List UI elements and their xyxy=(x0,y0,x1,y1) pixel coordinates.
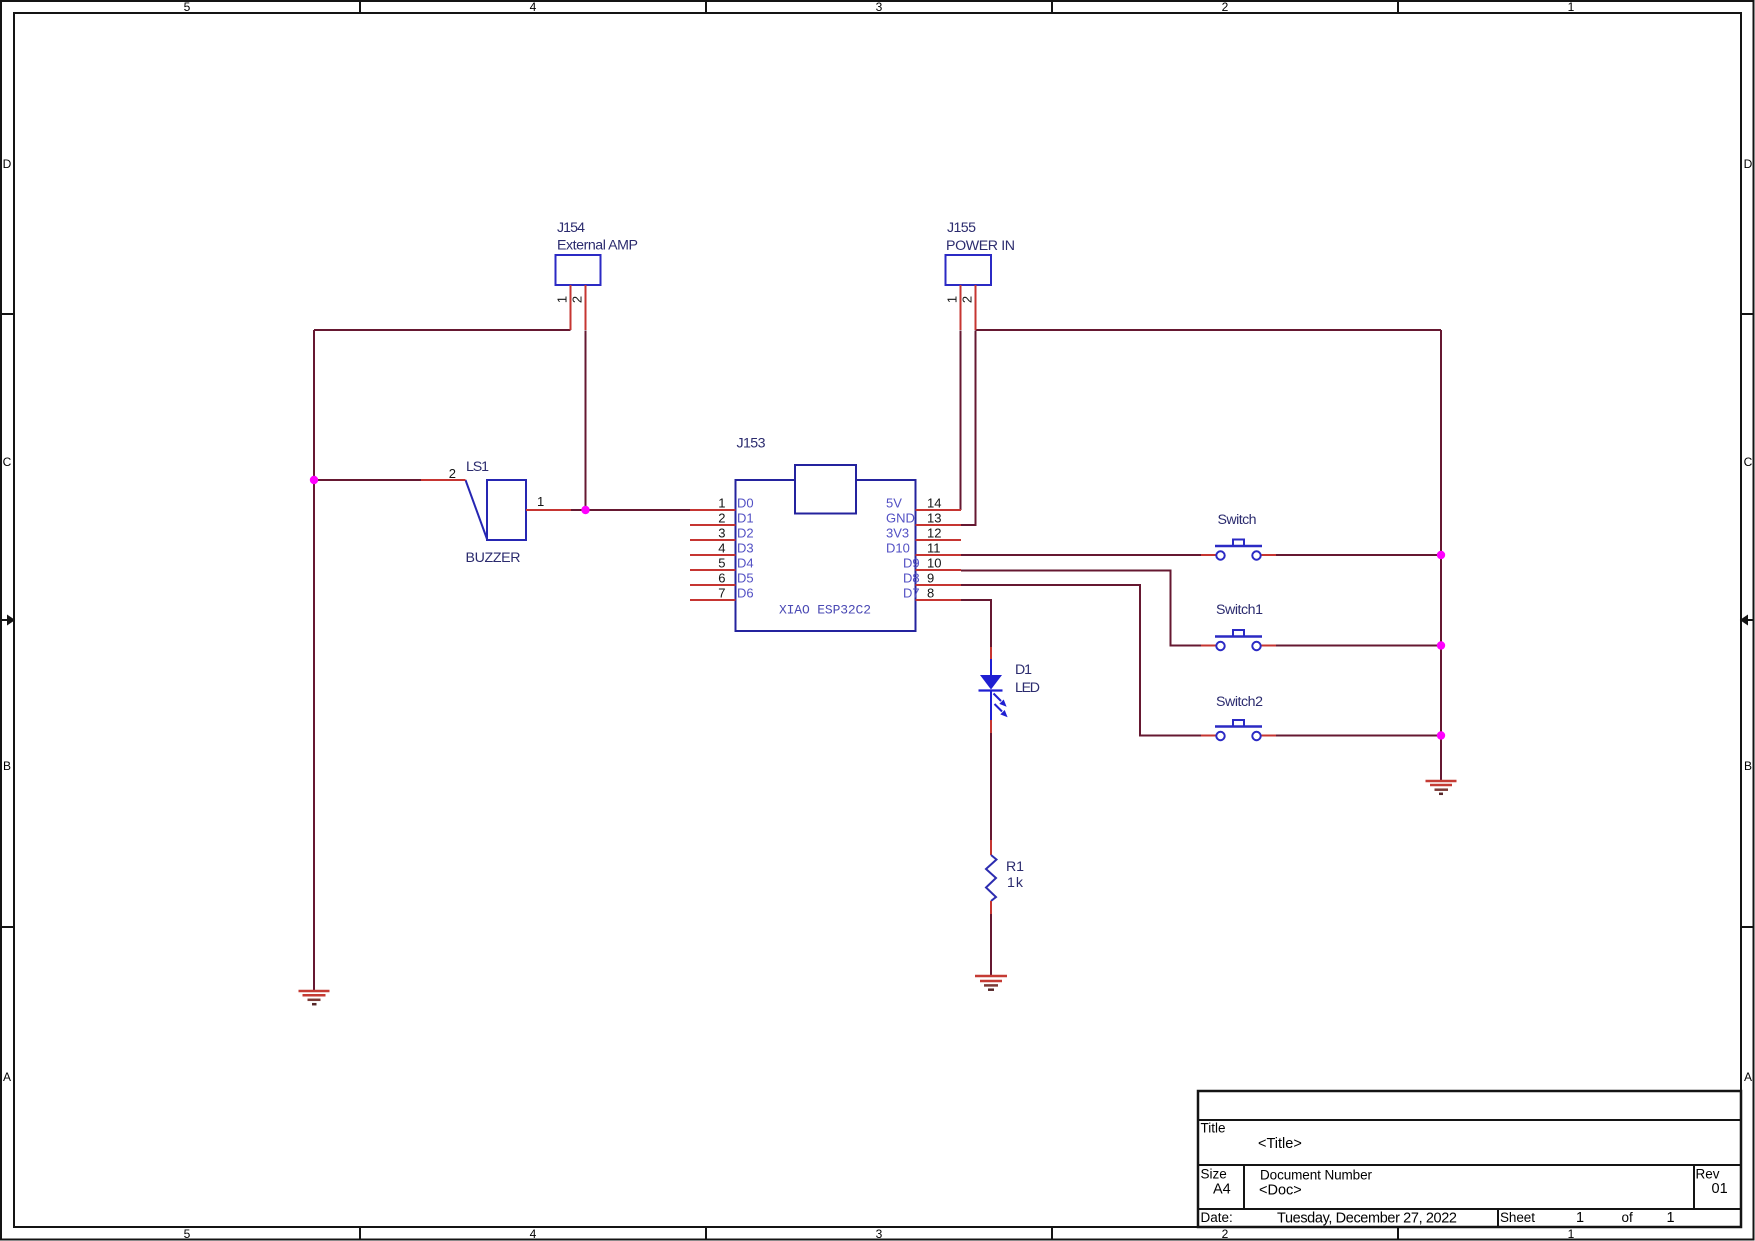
wire LS1 pin2 to left bus xyxy=(314,479,421,481)
svg-text:5: 5 xyxy=(184,0,191,14)
svg-text:<Doc>: <Doc> xyxy=(1259,1183,1302,1199)
svg-text:3: 3 xyxy=(718,526,725,541)
svg-text:LS1: LS1 xyxy=(466,459,489,475)
border left row ticks xyxy=(1,314,14,927)
wire Switch2 right to bus xyxy=(1276,735,1441,737)
wire J153 pin11 to Switch left xyxy=(961,554,1201,556)
svg-text:C: C xyxy=(1744,455,1753,469)
J153 left pin names D0-D6 xyxy=(737,496,754,601)
J154 pin 2 stub xyxy=(585,285,587,330)
svg-text:1: 1 xyxy=(1568,1227,1575,1241)
connector J155 body xyxy=(946,255,992,285)
J153 pin 12 stub xyxy=(916,539,962,541)
svg-text:3: 3 xyxy=(876,1227,883,1241)
svg-text:1k: 1k xyxy=(1007,875,1024,891)
junction node LS1 pin1 / J154 pin2 xyxy=(581,506,589,514)
svg-text:11: 11 xyxy=(927,541,941,556)
svg-text:D7: D7 xyxy=(903,586,920,601)
J153 pin 5 stub xyxy=(690,569,736,571)
svg-text:POWER IN: POWER IN xyxy=(946,238,1015,254)
svg-text:D9: D9 xyxy=(903,556,920,571)
ground symbol middle (below R1) xyxy=(975,976,1007,990)
svg-text:Date:: Date: xyxy=(1201,1210,1233,1225)
switch SW "Switch" symbol xyxy=(1201,540,1276,560)
svg-text:1: 1 xyxy=(537,494,544,509)
svg-text:14: 14 xyxy=(927,496,941,511)
title block divider size cell xyxy=(1243,1165,1245,1208)
wire Switch1 right to bus xyxy=(1276,645,1441,647)
title block row line 3 xyxy=(1198,1208,1741,1210)
svg-text:D6: D6 xyxy=(737,586,754,601)
svg-text:D2: D2 xyxy=(737,526,754,541)
svg-text:1: 1 xyxy=(718,496,725,511)
J153 pin 11 stub xyxy=(916,554,962,556)
wire J153 pin10 to Switch1 left xyxy=(961,571,1201,646)
svg-text:5: 5 xyxy=(184,1227,191,1241)
wire right bus vertical to ground xyxy=(1440,330,1442,781)
svg-text:01: 01 xyxy=(1712,1181,1728,1197)
border left center arrow xyxy=(1,615,15,626)
J155 pin 2 stub xyxy=(975,285,977,330)
junction node Switch2 / right bus xyxy=(1437,731,1445,739)
svg-text:A: A xyxy=(3,1070,11,1084)
svg-text:2: 2 xyxy=(1222,0,1229,14)
LED D1 symbol xyxy=(979,647,1008,733)
svg-text:R1: R1 xyxy=(1006,859,1024,875)
junction node Switch1 / right bus xyxy=(1437,641,1445,649)
J153 right pin names xyxy=(886,496,920,601)
buzzer LS1 body xyxy=(487,480,526,540)
J153 pin 13 stub xyxy=(916,524,962,526)
junction node left bus / LS1 pin2 xyxy=(310,476,318,484)
svg-text:12: 12 xyxy=(927,526,941,541)
svg-text:Rev: Rev xyxy=(1696,1167,1720,1182)
svg-text:<Title>: <Title> xyxy=(1258,1136,1302,1152)
J154 pin 1 stub xyxy=(570,285,572,330)
svg-text:2: 2 xyxy=(449,466,456,481)
svg-text:Document Number: Document Number xyxy=(1260,1168,1373,1183)
border top column ticks xyxy=(360,1,1398,13)
J153 pin 9 stub xyxy=(916,584,962,586)
border right row letters xyxy=(1744,157,1753,1084)
svg-text:5V: 5V xyxy=(886,496,902,511)
LS1 pin 1 stub xyxy=(526,509,571,511)
svg-text:of: of xyxy=(1622,1210,1634,1225)
J153 pin 4 stub xyxy=(690,554,736,556)
J153 right pin numbers 14-8 xyxy=(927,496,941,601)
svg-text:1: 1 xyxy=(945,296,960,303)
J153 pin 7 stub xyxy=(690,599,736,601)
svg-text:J155: J155 xyxy=(947,220,976,236)
svg-text:7: 7 xyxy=(718,586,725,601)
wire J155 pin1 down to J153 pin14 xyxy=(960,331,962,511)
J153 left pin numbers 1-7 xyxy=(718,496,725,601)
svg-text:Switch2: Switch2 xyxy=(1216,694,1263,710)
svg-text:5: 5 xyxy=(718,556,725,571)
svg-text:13: 13 xyxy=(927,511,941,526)
title block outline xyxy=(1198,1091,1741,1227)
resistor R1 symbol xyxy=(986,840,997,914)
svg-text:LED: LED xyxy=(1015,680,1040,696)
wire Switch right to bus xyxy=(1276,554,1441,556)
J153 pin 14 stub xyxy=(916,509,962,511)
svg-text:1: 1 xyxy=(555,296,570,303)
svg-text:D: D xyxy=(1744,157,1753,171)
wire left bus vertical to ground xyxy=(313,330,315,991)
svg-text:D3: D3 xyxy=(737,541,754,556)
svg-text:4: 4 xyxy=(530,1227,537,1241)
J155 pin 1 stub xyxy=(960,285,962,330)
svg-text:4: 4 xyxy=(530,0,537,14)
J153 top notch rectangle xyxy=(795,465,856,514)
switch SW1 "Switch1" symbol xyxy=(1201,630,1276,650)
svg-text:1: 1 xyxy=(1667,1210,1675,1226)
J153 pin 8 stub xyxy=(916,599,962,601)
title block row line 2 xyxy=(1198,1164,1741,1166)
wire LS1 pin1 node to J153 pin1 xyxy=(571,509,690,511)
svg-text:D10: D10 xyxy=(886,541,910,556)
svg-text:4: 4 xyxy=(718,541,725,556)
svg-text:Sheet: Sheet xyxy=(1500,1210,1535,1225)
title block row line 1 xyxy=(1198,1119,1741,1121)
border top column numbers xyxy=(184,0,1575,14)
wire R1 to middle ground xyxy=(990,914,992,976)
svg-text:Switch: Switch xyxy=(1218,512,1257,528)
svg-text:D1: D1 xyxy=(737,511,754,526)
svg-text:Switch1: Switch1 xyxy=(1216,602,1263,618)
svg-text:D1: D1 xyxy=(1015,662,1032,678)
wire LED D1 to R1 xyxy=(990,733,992,840)
junction node Switch / right bus xyxy=(1437,551,1445,559)
svg-text:D8: D8 xyxy=(903,571,920,586)
svg-text:B: B xyxy=(1744,759,1752,773)
svg-text:3: 3 xyxy=(876,0,883,14)
svg-text:D5: D5 xyxy=(737,571,754,586)
border bottom column numbers xyxy=(184,1227,1575,1241)
svg-text:2: 2 xyxy=(1222,1227,1229,1241)
IC J153 body xyxy=(736,480,916,631)
title block divider rev cell xyxy=(1693,1165,1695,1208)
svg-text:J153: J153 xyxy=(737,436,766,452)
svg-text:A: A xyxy=(1744,1070,1752,1084)
connector J154 body xyxy=(556,255,601,285)
svg-text:D0: D0 xyxy=(737,496,754,511)
ground symbol right (below bus) xyxy=(1426,781,1457,794)
svg-text:9: 9 xyxy=(927,571,934,586)
svg-text:6: 6 xyxy=(718,571,725,586)
svg-text:2: 2 xyxy=(570,296,585,303)
J153 pin 6 stub xyxy=(690,584,736,586)
border right row ticks xyxy=(1741,314,1754,927)
LS1 pin 2 stub xyxy=(421,479,466,481)
svg-text:Tuesday, December 27, 2022: Tuesday, December 27, 2022 xyxy=(1277,1211,1457,1227)
svg-text:XIAO ESP32C2: XIAO ESP32C2 xyxy=(779,603,871,618)
buzzer LS1 diagonal xyxy=(466,480,488,539)
svg-text:A4: A4 xyxy=(1213,1182,1231,1198)
svg-text:8: 8 xyxy=(927,586,934,601)
svg-text:GND: GND xyxy=(886,511,915,526)
wire net AMP: J154 pin1 to left bus xyxy=(314,329,571,331)
svg-text:1: 1 xyxy=(1568,0,1575,14)
wire J155 pin2 down to J153 pin13 xyxy=(961,331,976,526)
J153 pin 2 stub xyxy=(690,524,736,526)
wire J154 pin2 down to LS1 pin1 node xyxy=(585,331,587,511)
wire J153 pin9 to Switch2 left xyxy=(961,585,1201,736)
J153 pin 1 stub xyxy=(690,509,736,511)
svg-text:Title: Title xyxy=(1201,1121,1226,1136)
wire J153 pin8 to LED D1 xyxy=(961,600,991,647)
svg-text:10: 10 xyxy=(927,556,941,571)
svg-text:B: B xyxy=(3,759,11,773)
svg-text:1: 1 xyxy=(1576,1210,1584,1226)
svg-text:D: D xyxy=(3,157,12,171)
svg-text:D4: D4 xyxy=(737,556,754,571)
svg-text:BUZZER: BUZZER xyxy=(466,550,521,566)
svg-text:2: 2 xyxy=(960,296,975,303)
svg-text:2: 2 xyxy=(718,511,725,526)
wire GND top horizontal to right bus xyxy=(976,329,1442,331)
ground symbol left xyxy=(299,991,330,1004)
J153 pin 10 stub xyxy=(916,569,962,571)
border left row letters xyxy=(3,157,12,1084)
svg-text:J154: J154 xyxy=(557,220,585,236)
J153 pin 3 stub xyxy=(690,539,736,541)
border right center arrow xyxy=(1740,615,1754,626)
svg-text:3V3: 3V3 xyxy=(886,526,909,541)
switch SW2 "Switch2" symbol xyxy=(1201,720,1276,740)
svg-text:C: C xyxy=(3,455,12,469)
border bottom column ticks xyxy=(360,1227,1398,1240)
svg-text:External AMP: External AMP xyxy=(557,238,638,254)
svg-text:Size: Size xyxy=(1201,1167,1227,1182)
title block divider sheet cell xyxy=(1497,1209,1499,1227)
